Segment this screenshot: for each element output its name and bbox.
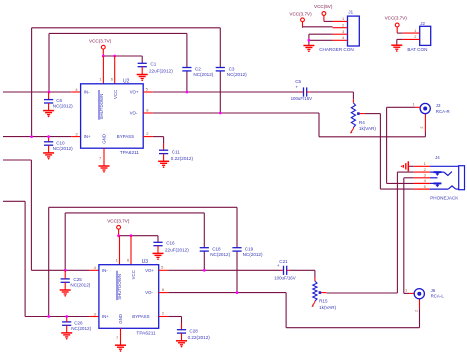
svg-text:C1: C1	[150, 62, 156, 67]
svg-text:NC(2012): NC(2012)	[227, 72, 247, 77]
svg-text:C28: C28	[189, 329, 198, 334]
svg-text:BAT CON: BAT CON	[407, 47, 427, 52]
svg-text:GND: GND	[102, 134, 107, 144]
svg-text:U2: U2	[123, 78, 130, 84]
svg-text:NC(2012): NC(2012)	[70, 283, 90, 288]
svg-text:VO+: VO+	[145, 268, 154, 273]
svg-text:R4: R4	[359, 120, 365, 125]
svg-text:NC(2012): NC(2012)	[71, 326, 91, 331]
svg-text:IN+: IN+	[102, 314, 109, 319]
svg-text:VCC(3.7V): VCC(3.7V)	[89, 38, 112, 43]
svg-text:VO-: VO-	[145, 290, 153, 295]
svg-text:PHONEJACK: PHONEJACK	[430, 196, 459, 201]
svg-text:100uF/16V: 100uF/16V	[291, 96, 313, 101]
svg-text:C2: C2	[195, 66, 201, 71]
svg-text:TPA6211: TPA6211	[120, 150, 140, 156]
svg-text:0.22(2012): 0.22(2012)	[188, 335, 211, 340]
svg-text:C19: C19	[245, 247, 254, 252]
svg-text:22uF(2012): 22uF(2012)	[165, 247, 189, 252]
svg-text:NC(2012): NC(2012)	[210, 252, 230, 257]
svg-text:U3: U3	[142, 259, 149, 265]
svg-text:RCA-L: RCA-L	[431, 294, 445, 299]
svg-text:IN+: IN+	[84, 134, 91, 139]
svg-text:VCC(3.7V): VCC(3.7V)	[289, 11, 312, 16]
svg-text:VCC: VCC	[131, 270, 136, 279]
svg-text:VCC(5V): VCC(5V)	[314, 4, 333, 9]
svg-text:J6: J6	[431, 288, 436, 293]
svg-text:CHARGER CON: CHARGER CON	[319, 47, 353, 52]
svg-text:IN-: IN-	[102, 268, 108, 273]
svg-text:BYPASS: BYPASS	[117, 134, 134, 139]
svg-text:C11: C11	[172, 149, 181, 154]
svg-text:RCA-R: RCA-R	[436, 109, 450, 114]
svg-text:100uF/16V: 100uF/16V	[274, 276, 296, 281]
svg-text:NC(2012): NC(2012)	[53, 103, 73, 108]
svg-text:BYPASS: BYPASS	[132, 314, 149, 319]
svg-text:IN-: IN-	[84, 90, 90, 95]
svg-text:VO-: VO-	[130, 111, 138, 116]
svg-text:C21: C21	[279, 259, 288, 264]
svg-text:C6: C6	[56, 98, 62, 103]
svg-text:1k(VAR): 1k(VAR)	[359, 126, 376, 131]
svg-text:+: +	[296, 84, 299, 89]
svg-text:NC(2012): NC(2012)	[193, 72, 213, 77]
svg-text:SHUTDOWN: SHUTDOWN	[117, 274, 122, 300]
svg-text:2: 2	[420, 127, 424, 129]
svg-text:J3: J3	[436, 103, 441, 108]
svg-text:22uF(2012): 22uF(2012)	[149, 69, 173, 74]
svg-text:C5: C5	[295, 79, 301, 84]
svg-text:VCC(3.7V): VCC(3.7V)	[107, 218, 130, 223]
svg-text:NC(2012): NC(2012)	[53, 146, 73, 151]
svg-text:GND: GND	[118, 314, 123, 324]
svg-text:TPA6211: TPA6211	[136, 330, 156, 336]
svg-text:VCC: VCC	[113, 90, 118, 99]
svg-text:R15: R15	[319, 298, 328, 303]
svg-text:0.22(2012): 0.22(2012)	[171, 156, 194, 161]
svg-text:VO+: VO+	[130, 90, 139, 95]
svg-text:1k(VAR): 1k(VAR)	[319, 305, 336, 310]
svg-text:C18: C18	[212, 247, 221, 252]
svg-text:VCC(3.7V): VCC(3.7V)	[385, 16, 408, 21]
svg-text:J4: J4	[435, 155, 440, 160]
svg-text:2: 2	[414, 310, 418, 312]
svg-text:C16: C16	[166, 241, 175, 246]
svg-text:J2: J2	[420, 21, 425, 26]
svg-text:J1: J1	[348, 10, 353, 15]
svg-text:SHUTDOWN: SHUTDOWN	[99, 94, 104, 120]
svg-text:C10: C10	[56, 140, 65, 145]
svg-text:NC(2012): NC(2012)	[243, 252, 263, 257]
svg-text:C26: C26	[74, 320, 83, 325]
svg-text:+: +	[277, 263, 280, 268]
svg-text:C3: C3	[229, 66, 235, 71]
svg-text:C25: C25	[73, 277, 82, 282]
